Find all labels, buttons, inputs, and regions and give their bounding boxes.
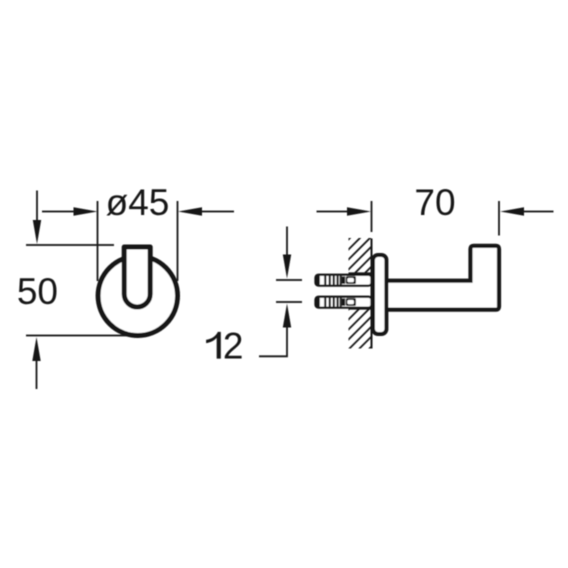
- wall hatch upper block: [338, 220, 418, 300]
- dimension text 12: [206, 326, 243, 367]
- circle: hook rosette front view: [98, 256, 177, 335]
- reference line top of 50 dim: [26, 244, 114, 246]
- screw top: clamp bar: [342, 276, 345, 283]
- arrow 50 bottom (points up): [36, 360, 38, 389]
- extension line right of 70 (hook tip): [498, 201, 500, 236]
- arrow 50 top (points down): [36, 191, 38, 223]
- arrowhead 70 right (points left): [500, 207, 524, 215]
- screw bottom: left end cap: [315, 296, 320, 308]
- screw bottom: anchor body: [316, 297, 372, 308]
- screw bottom: thread stripes: [325, 298, 341, 308]
- screw top: head slot: [347, 278, 354, 282]
- wall hatch lower block: [338, 260, 458, 380]
- wall hatch lower block top boundary: [349, 308, 372, 310]
- dimension line ø45 left segment: [42, 211, 75, 213]
- wall surface line: [371, 239, 373, 349]
- arrow 12 bottom (points up) with leader: [259, 327, 287, 357]
- dimension line ø45 right segment: [201, 211, 234, 213]
- 12 dim: reference line top (upper screw axis): [276, 279, 302, 281]
- screw top: left end cap: [315, 274, 320, 286]
- digit 1 of "12" (drawn, no foot serif): [206, 332, 221, 359]
- 12 dim: reference line bottom (lower screw axis): [276, 301, 302, 303]
- svg-text:50: 50: [17, 271, 58, 312]
- arrowhead ø45 right (points left): [178, 207, 202, 215]
- arrow 12 top (points down): [286, 227, 288, 257]
- svg-text:70: 70: [414, 182, 455, 223]
- screw top: thread stripes: [325, 276, 341, 286]
- extension line right of ø45: [177, 201, 179, 281]
- extension line left of 70 (wall face): [371, 201, 373, 232]
- dimension line 70 left segment: [317, 211, 350, 213]
- screw top: anchor body: [316, 275, 372, 286]
- svg-text:ø45: ø45: [106, 182, 170, 223]
- mounting plate (rounded, side view): [373, 255, 386, 334]
- wall hatch upper block bottom boundary: [349, 272, 372, 274]
- arrowhead 70 left (points right): [347, 207, 371, 215]
- arrowhead ø45 left (points right): [74, 207, 98, 215]
- dimension line 70 right segment: [523, 211, 554, 213]
- U-shaped hook tip front view: [124, 247, 150, 307]
- hook side profile (arm + upturned tip): [388, 246, 499, 310]
- screw bottom: head slot: [347, 300, 354, 304]
- svg-text:2: 2: [223, 326, 244, 367]
- screw bottom: clamp bar: [342, 298, 345, 305]
- reference line bottom of 50 dim: [26, 335, 141, 337]
- screw top: head block: [346, 276, 356, 284]
- extension line left of ø45: [97, 201, 99, 281]
- screw bottom: head block: [346, 298, 356, 306]
